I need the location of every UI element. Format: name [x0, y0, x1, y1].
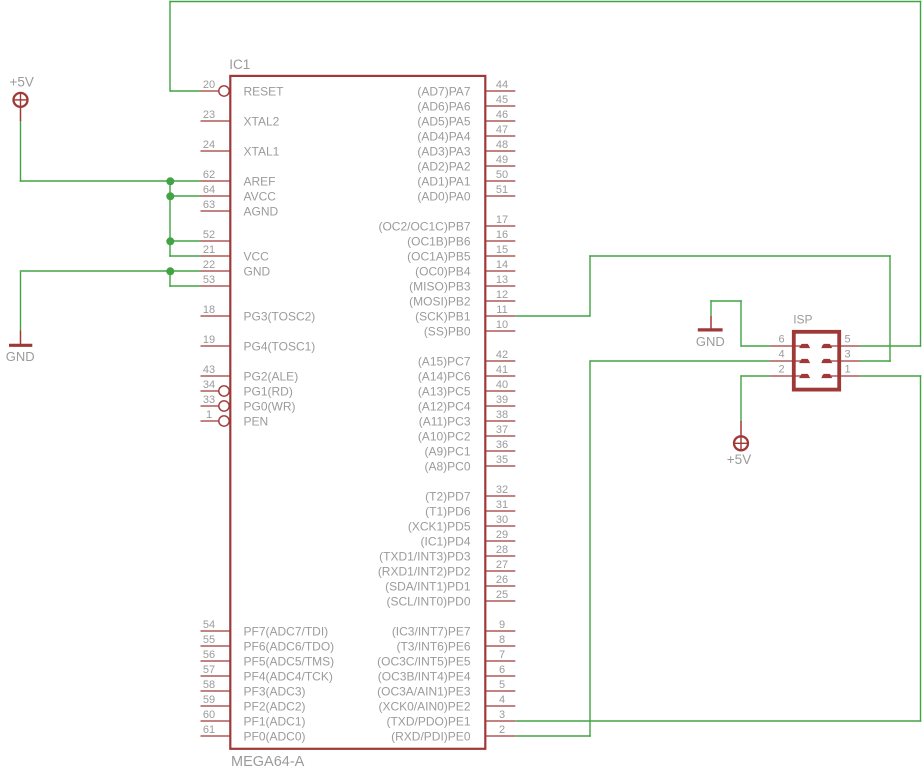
svg-text:(OC2/OC1C)PB7: (OC2/OC1C)PB7 [378, 219, 470, 233]
wire net PDI: to PE0 pin2 [515, 735, 591, 737]
svg-text:PF3(ADC3): PF3(ADC3) [244, 684, 306, 698]
svg-text:(MISO)PB3: (MISO)PB3 [409, 279, 471, 293]
wire net GND(left): to GND pin53 [169, 285, 200, 287]
svg-text:47: 47 [496, 124, 508, 136]
svg-text:AGND: AGND [244, 204, 279, 218]
svg-text:16: 16 [496, 229, 508, 241]
svg-text:64: 64 [203, 184, 215, 196]
svg-text:(T2)PD7: (T2)PD7 [425, 489, 471, 503]
wire net GND(left): vertical branch [169, 272, 171, 287]
svg-text:50: 50 [496, 169, 508, 181]
svg-text:3: 3 [845, 348, 851, 360]
pin 16 (OC1B)PB6 right [407, 229, 515, 248]
pin 58 PF3(ADC3) left [201, 679, 306, 698]
svg-text:62: 62 [203, 169, 215, 181]
pin 59 PF2(ADC2) left [201, 694, 306, 713]
svg-text:RESET: RESET [244, 84, 285, 98]
wire net RESET: pin20 stub to corner [170, 90, 201, 92]
junction +5V at pin62 row [166, 177, 174, 185]
wire net GND(right): up [740, 300, 742, 347]
wire net GND(left): down to ground symbol [20, 272, 22, 331]
pin 26 (SDA/INT1)PD1 right [385, 574, 515, 593]
svg-text:(A14)PC6: (A14)PC6 [418, 369, 471, 383]
pin 44 (AD7)PA7 right [417, 79, 515, 98]
ISP pin 1 [821, 363, 860, 378]
junction +5V at pin64 row [166, 192, 174, 200]
svg-text:6: 6 [778, 333, 784, 345]
wire net SCK: to ISP pin3 [860, 360, 891, 362]
svg-text:(A8)PC0: (A8)PC0 [424, 459, 470, 473]
svg-text:55: 55 [203, 634, 215, 646]
pin 25 (SCL/INT0)PD0 right [386, 589, 515, 608]
svg-text:IC1: IC1 [229, 57, 250, 72]
junction GND at pin22 row [166, 267, 174, 275]
svg-text:(TXD/PDO)PE1: (TXD/PDO)PE1 [386, 714, 470, 728]
wire net PDO: down right edge [920, 375, 922, 722]
pin 17 (OC2/OC1C)PB7 right [378, 214, 515, 233]
svg-text:45: 45 [496, 94, 508, 106]
pin 49 (AD2)PA2 right [417, 154, 515, 173]
svg-text:28: 28 [496, 544, 508, 556]
svg-text:49: 49 [496, 154, 508, 166]
svg-text:AVCC: AVCC [244, 189, 277, 203]
svg-text:(OC1A)PB5: (OC1A)PB5 [407, 249, 471, 263]
pin 34 PG1(RD) left [201, 379, 293, 398]
wire net SCK: up [589, 255, 591, 316]
ISP pin 3 [821, 348, 860, 363]
svg-text:54: 54 [203, 619, 215, 631]
svg-text:24: 24 [203, 139, 215, 151]
pin 23 XTAL2 left [201, 109, 280, 128]
svg-text:PG4(TOSC1): PG4(TOSC1) [244, 339, 316, 353]
junction +5V at pin52 row [166, 237, 174, 245]
wire net +5V(right): down to supply [740, 375, 742, 421]
svg-text:12: 12 [496, 289, 508, 301]
pin 10 (SS)PB0 right [424, 319, 515, 338]
svg-text:11: 11 [496, 304, 507, 316]
wire net +5V(left): to AREF pin62 [20, 180, 201, 182]
pin 4 (XCK0/AIN0)PE2 right [378, 694, 515, 713]
pin 37 (A10)PC2 right [418, 424, 515, 443]
svg-text:29: 29 [496, 529, 508, 541]
pin 8 (T3/INT6)PE6 right [396, 634, 515, 653]
pin 6 (OC3B/INT4)PE4 right [378, 664, 516, 683]
svg-text:33: 33 [203, 394, 215, 406]
svg-text:38: 38 [496, 409, 508, 421]
svg-text:52: 52 [203, 229, 215, 241]
svg-text:PF7(ADC7/TDI): PF7(ADC7/TDI) [244, 624, 329, 638]
pin 20 RESET left [201, 79, 285, 98]
svg-text:XTAL1: XTAL1 [244, 144, 280, 158]
wire net SCK: down to ISP pin3 row [889, 255, 891, 362]
ISP pin 2 [770, 363, 810, 378]
pin 61 PF0(ADC0) left [201, 724, 306, 743]
svg-text:8: 8 [499, 634, 505, 646]
svg-text:5: 5 [845, 333, 851, 345]
svg-text:(A15)PC7: (A15)PC7 [418, 354, 471, 368]
pin 64 AVCC left [201, 184, 277, 203]
svg-text:(AD3)PA3: (AD3)PA3 [417, 144, 470, 158]
ISP pin 5 [821, 333, 860, 348]
svg-text:(TXD1/INT3)PD3: (TXD1/INT3)PD3 [379, 549, 471, 563]
connector ISP body [794, 332, 839, 390]
svg-text:(OC1B)PB6: (OC1B)PB6 [407, 234, 471, 248]
pin 21 VCC left [201, 244, 270, 263]
wire net RESET: along top [169, 1, 921, 3]
svg-text:(AD0)PA0: (AD0)PA0 [417, 189, 470, 203]
pin 50 (AD1)PA1 right [417, 169, 515, 188]
wire net RESET: up left side [169, 1, 171, 92]
pin 24 XTAL1 left [201, 139, 280, 158]
pin 42 (A15)PC7 right [418, 349, 515, 368]
+5V supply symbol (right, below ISP) [734, 421, 748, 450]
svg-text:31: 31 [496, 499, 508, 511]
GND ground symbol (right, near ISP) [698, 316, 723, 330]
pin 3 (TXD/PDO)PE1 right [386, 709, 515, 728]
pin 13 (MISO)PB3 right [409, 274, 515, 293]
svg-text:30: 30 [496, 514, 508, 526]
wire net +5V(left): vertical branch [169, 180, 171, 257]
+5V supply symbol (top left) [14, 93, 28, 121]
svg-text:(AD2)PA2: (AD2)PA2 [417, 159, 470, 173]
svg-text:59: 59 [203, 694, 215, 706]
pin 45 (AD6)PA6 right [417, 94, 515, 113]
svg-text:61: 61 [203, 724, 215, 736]
svg-text:AREF: AREF [244, 174, 276, 188]
pin 62 AREF left [201, 169, 276, 188]
svg-text:PF5(ADC5/TMS): PF5(ADC5/TMS) [244, 654, 335, 668]
svg-text:PF1(ADC1): PF1(ADC1) [244, 714, 306, 728]
svg-text:37: 37 [496, 424, 508, 436]
svg-text:26: 26 [496, 574, 508, 586]
wire net SCK: across right [589, 255, 891, 257]
svg-text:+5V: +5V [727, 452, 751, 467]
svg-text:PEN: PEN [244, 414, 269, 428]
pin 1 PEN left [201, 409, 269, 428]
pin 2 (RXD/PDI)PE0 right [391, 724, 515, 743]
svg-text:60: 60 [203, 709, 215, 721]
pin 47 (AD4)PA4 right [417, 124, 515, 143]
svg-text:13: 13 [496, 274, 508, 286]
svg-text:(XCK0/AIN0)PE2: (XCK0/AIN0)PE2 [378, 699, 470, 713]
IC IC1 (MEGA64-A) body [230, 76, 485, 749]
svg-text:63: 63 [203, 199, 215, 211]
pin 52 (power) left [201, 229, 231, 241]
svg-text:7: 7 [499, 649, 505, 661]
pin 36 (A9)PC1 right [424, 439, 515, 458]
svg-text:41: 41 [496, 364, 508, 376]
svg-text:36: 36 [496, 439, 508, 451]
wire net RESET: to ISP pin5 [860, 345, 921, 347]
wire net PDI: down [589, 360, 591, 737]
svg-text:10: 10 [496, 319, 508, 331]
pin 9 (IC3/INT7)PE7 right [392, 619, 515, 638]
pin 11 (SCK)PB1 right [415, 304, 515, 323]
svg-text:(AD1)PA1: (AD1)PA1 [417, 174, 470, 188]
svg-text:(OC3C/INT5)PE5: (OC3C/INT5)PE5 [377, 654, 471, 668]
svg-text:58: 58 [203, 679, 215, 691]
svg-text:56: 56 [203, 649, 215, 661]
GND ground symbol (left) [9, 331, 32, 346]
svg-text:20: 20 [203, 79, 215, 91]
pin 54 PF7(ADC7/TDI) left [201, 619, 329, 638]
pin 19 PG4(TOSC1) left [201, 334, 316, 353]
svg-text:(SCL/INT0)PD0: (SCL/INT0)PD0 [386, 594, 470, 608]
pin 55 PF6(ADC6/TDO) left [201, 634, 335, 653]
pin 35 (A8)PC0 right [424, 454, 515, 473]
wire net RESET: down right edge [920, 1, 922, 347]
svg-text:(A9)PC1: (A9)PC1 [424, 444, 470, 458]
pin 30 (XCK1)PD5 right [408, 514, 515, 533]
pin 14 (OC0)PB4 right [415, 259, 515, 278]
svg-text:GND: GND [6, 349, 35, 364]
pin 43 PG2(ALE) left [201, 364, 299, 383]
svg-text:5: 5 [499, 679, 505, 691]
svg-text:(T3/INT6)PE6: (T3/INT6)PE6 [396, 639, 470, 653]
svg-text:(AD5)PA5: (AD5)PA5 [417, 114, 470, 128]
svg-text:40: 40 [496, 379, 508, 391]
svg-text:4: 4 [499, 694, 505, 706]
pin 46 (AD5)PA5 right [417, 109, 515, 128]
svg-text:(OC0)PB4: (OC0)PB4 [415, 264, 471, 278]
pin 56 PF5(ADC5/TMS) left [201, 649, 335, 668]
svg-text:(IC3/INT7)PE7: (IC3/INT7)PE7 [392, 624, 471, 638]
pin 53 (power) left [201, 274, 231, 286]
pin 5 (OC3A/AIN1)PE3 right [377, 679, 515, 698]
svg-text:22: 22 [203, 259, 215, 271]
pin 28 (TXD1/INT3)PD3 right [379, 544, 515, 563]
svg-text:4: 4 [778, 348, 784, 360]
pin 39 (A12)PC4 right [418, 394, 515, 413]
pin 7 (OC3C/INT5)PE5 right [377, 649, 515, 668]
wire net PDI: ISP pin4 to corner [590, 360, 770, 362]
svg-text:+5V: +5V [9, 74, 33, 89]
svg-text:GND: GND [696, 334, 725, 349]
wire net PDO: ISP pin1 to right edge [860, 375, 921, 377]
svg-text:(A13)PC5: (A13)PC5 [418, 384, 471, 398]
svg-text:PF4(ADC4/TCK): PF4(ADC4/TCK) [244, 669, 333, 683]
svg-text:2: 2 [778, 363, 784, 375]
ISP pin 4 [770, 348, 810, 363]
svg-text:9: 9 [499, 619, 505, 631]
svg-text:35: 35 [496, 454, 508, 466]
svg-text:PG3(TOSC2): PG3(TOSC2) [244, 309, 316, 323]
pin 18 PG3(TOSC2) left [201, 304, 316, 323]
pin 41 (A14)PC6 right [418, 364, 515, 383]
svg-text:PG2(ALE): PG2(ALE) [244, 369, 299, 383]
wire net GND(left): to GND pin22 [20, 270, 201, 272]
svg-text:PG1(RD): PG1(RD) [244, 384, 293, 398]
svg-text:43: 43 [203, 364, 215, 376]
pin 57 PF4(ADC4/TCK) left [201, 664, 333, 683]
svg-text:21: 21 [203, 244, 215, 256]
svg-text:1: 1 [206, 409, 212, 421]
wire net SCK: pin11 stub to corner [515, 315, 590, 317]
svg-text:27: 27 [496, 559, 508, 571]
svg-text:2: 2 [499, 724, 505, 736]
pin 32 (T2)PD7 right [425, 484, 515, 503]
svg-text:51: 51 [496, 184, 508, 196]
pin 40 (A13)PC5 right [418, 379, 515, 398]
svg-text:(OC3B/INT4)PE4: (OC3B/INT4)PE4 [378, 669, 471, 683]
svg-text:46: 46 [496, 109, 508, 121]
svg-text:(A10)PC2: (A10)PC2 [418, 429, 471, 443]
svg-text:(SS)PB0: (SS)PB0 [424, 324, 471, 338]
svg-text:15: 15 [496, 244, 508, 256]
svg-text:42: 42 [496, 349, 508, 361]
svg-text:34: 34 [203, 379, 215, 391]
svg-text:6: 6 [499, 664, 505, 676]
svg-text:ISP: ISP [793, 313, 812, 327]
pin 12 (MOSI)PB2 right [409, 289, 515, 308]
svg-text:(AD4)PA4: (AD4)PA4 [417, 129, 470, 143]
wire net PDO: to PE1 pin3 [515, 720, 921, 722]
svg-text:(MOSI)PB2: (MOSI)PB2 [409, 294, 471, 308]
pin 51 (AD0)PA0 right [417, 184, 515, 203]
svg-text:14: 14 [496, 259, 508, 271]
svg-text:(SCK)PB1: (SCK)PB1 [415, 309, 471, 323]
pin 27 (RXD1/INT2)PD2 right [378, 559, 515, 578]
svg-text:PF6(ADC6/TDO): PF6(ADC6/TDO) [244, 639, 335, 653]
svg-text:(AD7)PA7: (AD7)PA7 [417, 84, 470, 98]
svg-text:(T1)PD6: (T1)PD6 [425, 504, 471, 518]
svg-text:XTAL2: XTAL2 [244, 114, 280, 128]
svg-text:PG0(WR): PG0(WR) [244, 399, 296, 413]
pin 63 AGND left [201, 199, 279, 218]
svg-text:23: 23 [203, 109, 215, 121]
svg-text:48: 48 [496, 139, 508, 151]
svg-text:3: 3 [499, 709, 505, 721]
pin 31 (T1)PD6 right [425, 499, 515, 518]
wire net +5V(right): ISP pin2 to corner [741, 375, 770, 377]
svg-text:19: 19 [203, 334, 215, 346]
pin 22 GND left [201, 259, 271, 278]
pin 38 (A11)PC3 right [419, 409, 516, 428]
svg-text:(SDA/INT1)PD1: (SDA/INT1)PD1 [385, 579, 471, 593]
svg-text:(IC1)PD4: (IC1)PD4 [420, 534, 470, 548]
wire net GND(right): across [710, 300, 742, 302]
svg-text:25: 25 [496, 589, 508, 601]
svg-text:(RXD/PDI)PE0: (RXD/PDI)PE0 [391, 729, 471, 743]
svg-text:44: 44 [496, 79, 508, 91]
svg-text:39: 39 [496, 394, 508, 406]
svg-text:PF2(ADC2): PF2(ADC2) [244, 699, 306, 713]
svg-text:MEGA64-A: MEGA64-A [231, 754, 305, 770]
pin 29 (IC1)PD4 right [420, 529, 515, 548]
svg-text:(AD6)PA6: (AD6)PA6 [417, 99, 470, 113]
wire net GND(right): down to ground symbol [710, 300, 712, 316]
pin 33 PG0(WR) left [201, 394, 296, 413]
svg-text:PF0(ADC0): PF0(ADC0) [244, 729, 306, 743]
wire net +5V(left): to VCC pin21 [169, 255, 200, 257]
svg-text:1: 1 [845, 363, 851, 375]
svg-text:53: 53 [203, 274, 215, 286]
svg-text:(OC3A/AIN1)PE3: (OC3A/AIN1)PE3 [377, 684, 471, 698]
wire net +5V(left): down from supply [20, 121, 22, 182]
wire net GND(right): ISP pin6 to corner [741, 345, 770, 347]
pin 48 (AD3)PA3 right [417, 139, 515, 158]
svg-text:18: 18 [203, 304, 215, 316]
svg-text:32: 32 [496, 484, 508, 496]
svg-text:17: 17 [496, 214, 508, 226]
wire net +5V(left): to AVCC pin64 [170, 195, 201, 197]
wire net +5V(left): to VCC pin52 [170, 240, 201, 242]
pin 15 (OC1A)PB5 right [407, 244, 515, 263]
svg-text:(A11)PC3: (A11)PC3 [419, 414, 471, 428]
pin 60 PF1(ADC1) left [201, 709, 306, 728]
svg-text:GND: GND [244, 264, 271, 278]
svg-text:(A12)PC4: (A12)PC4 [418, 399, 471, 413]
svg-text:(RXD1/INT2)PD2: (RXD1/INT2)PD2 [378, 564, 471, 578]
svg-text:57: 57 [203, 664, 215, 676]
svg-text:VCC: VCC [244, 249, 270, 263]
svg-text:(XCK1)PD5: (XCK1)PD5 [408, 519, 471, 533]
ISP pin 6 [770, 333, 810, 348]
